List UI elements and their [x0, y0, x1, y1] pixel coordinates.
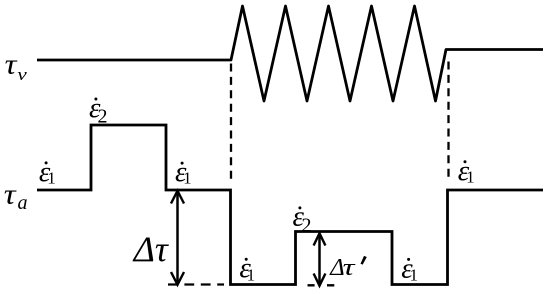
svg-text:1: 1: [466, 168, 475, 187]
svg-text:τ: τ: [4, 179, 17, 210]
svg-text:τ: τ: [343, 254, 357, 281]
svg-text:2: 2: [302, 214, 312, 236]
svg-text:1: 1: [183, 168, 192, 187]
svg-text:1: 1: [410, 266, 419, 285]
svg-text:1: 1: [247, 266, 256, 285]
svg-text:1: 1: [47, 169, 56, 188]
svg-text:v: v: [17, 66, 27, 84]
svg-text:τ: τ: [5, 49, 18, 80]
svg-text:a: a: [18, 192, 28, 214]
svg-text:2: 2: [98, 105, 108, 127]
svg-text:Δτ: Δτ: [132, 229, 169, 269]
